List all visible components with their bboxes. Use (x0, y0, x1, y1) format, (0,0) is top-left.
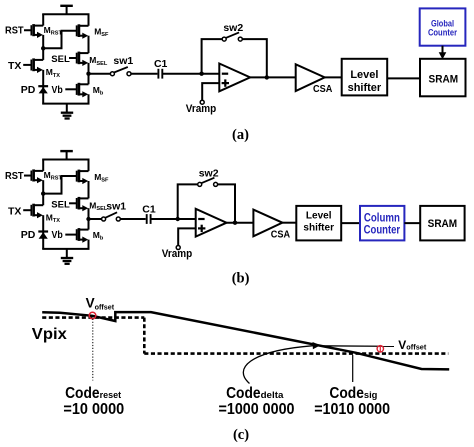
svg-text:Level: Level (350, 69, 378, 81)
fig b: level shifter block (296, 206, 341, 241)
fig b: wire pixel to sw1 (89, 218, 102, 220)
svg-text:TX: TX (8, 60, 21, 72)
fig a: wire right branch MSEL-Mb (88, 63, 90, 84)
fig a: wire left branch mid (42, 35, 44, 60)
svg-text:SEL: SEL (51, 199, 70, 210)
fig c: curved leader Code delta (243, 346, 313, 384)
transistor M_b (fig a) (65, 83, 88, 98)
fig a: plus input symbol (222, 79, 229, 86)
svg-text:Vramp: Vramp (162, 248, 193, 260)
svg-text:Mb: Mb (93, 85, 104, 97)
fig a: terminal Vramp circle (200, 100, 204, 104)
transistor M_SEL (fig b) (69, 197, 89, 211)
transistor M_SF (fig b) (77, 170, 89, 185)
fig b: wire feedback right (217, 184, 235, 223)
svg-text:TX: TX (8, 206, 21, 218)
fig b: op-amp comparator (196, 209, 227, 237)
fig b: wire right branch bottom (88, 240, 90, 249)
fig b: wire right branch MSEL-Mb (88, 208, 90, 229)
fig a: wire left branch lower (42, 70, 44, 104)
transistor M_b (fig b) (65, 228, 88, 243)
fig b: amplifier CSA (253, 210, 282, 237)
svg-text:SEL: SEL (51, 54, 70, 65)
svg-text:Voffset: Voffset (398, 338, 427, 352)
svg-text:(a): (a) (232, 127, 249, 143)
fig a: wire Vramp to plus input (202, 83, 219, 100)
fig c: dotted leader Code reset (92, 319, 94, 381)
fig b: wire left branch upper (42, 160, 44, 171)
fig c: ramp dashed waveform lower (144, 352, 448, 355)
svg-text:sw1: sw1 (106, 200, 126, 212)
svg-text:Level: Level (306, 211, 332, 222)
fig b: photodiode PD (38, 232, 48, 239)
svg-text:SRAM: SRAM (428, 218, 458, 230)
svg-text:CSA: CSA (313, 83, 333, 95)
fig a: switch sw1 (110, 67, 131, 76)
fig a: wire bottom rail (42, 103, 89, 105)
fig b: wire comparator output (227, 222, 254, 224)
svg-text:Column: Column (364, 213, 400, 225)
svg-text:(c): (c) (233, 427, 249, 443)
svg-text:RST: RST (5, 170, 24, 182)
fig a: wire sw1 to C1 (131, 73, 158, 75)
fig a: global counter block (420, 8, 466, 45)
svg-text:MSF: MSF (94, 172, 109, 184)
fig b: wire left branch lower (42, 215, 44, 249)
fig b: wire C1 to comparator (151, 218, 196, 220)
svg-text:sw1: sw1 (113, 55, 133, 67)
fig c: ramp dashed waveform upper (42, 316, 144, 319)
svg-text:MTX: MTX (46, 67, 61, 79)
fig a: wire right branch MSF-MSEL (88, 36, 90, 53)
svg-text:Vb: Vb (52, 84, 63, 96)
transistor M_TX (fig a) (23, 58, 43, 73)
fig a: amplifier CSA (296, 64, 325, 91)
fig b: minus input symbol (198, 218, 204, 220)
fig c: leader Code sig (352, 355, 354, 382)
svg-text:shifter: shifter (348, 82, 382, 94)
fig a: op-amp comparator (219, 64, 250, 92)
svg-text:=1000 0000: =1000 0000 (219, 401, 295, 418)
fig c: Vpix solid waveform (42, 312, 449, 369)
fig a: capacitor C1 (158, 69, 162, 79)
fig a: wire feedback right (242, 39, 267, 78)
transistor M_SEL (fig a) (69, 52, 89, 66)
fig b: wire feedback left (178, 184, 198, 219)
fig b: node comparator input dot (176, 217, 180, 221)
fig a: photodiode PD (38, 86, 48, 93)
svg-text:Vramp: Vramp (186, 103, 217, 115)
fig a: wire feedback left (202, 39, 223, 74)
svg-text:shifter: shifter (303, 222, 334, 233)
svg-text:C1: C1 (142, 204, 156, 216)
svg-text:Voffset: Voffset (86, 296, 115, 312)
svg-text:Mb: Mb (93, 230, 104, 242)
svg-text:C1: C1 (154, 58, 168, 70)
fig a: wire CSA to level shifter (325, 76, 342, 78)
fig a: level shifter block (342, 59, 388, 96)
fig a: node FD junction dot (41, 46, 45, 50)
svg-text:CSA: CSA (271, 229, 291, 241)
svg-text:PD: PD (21, 84, 36, 96)
fig b: wire CSA to level shifter (282, 222, 296, 224)
fig b: VDD supply symbol (60, 151, 73, 159)
fig b: wire right branch top (88, 160, 90, 172)
fig a: arrow global counter to SRAM (439, 46, 447, 60)
fig b: SRAM block (420, 206, 464, 241)
fig b: switch sw1 (102, 212, 121, 221)
fig b: wire MSF gate to node (43, 176, 76, 194)
fig c: ramp dashed waveform step (143, 318, 146, 354)
fig b: plus input symbol (198, 225, 205, 232)
fig b: column counter block (360, 206, 404, 241)
fig a: ground symbol (61, 104, 73, 119)
svg-text:(b): (b) (232, 271, 250, 287)
fig b: wire level shifter to column counter (341, 222, 360, 224)
svg-text:Counter: Counter (364, 225, 401, 237)
transistor M_RST (fig b) (24, 169, 43, 183)
fig b: node FD junction dot (41, 191, 45, 195)
fig b: capacitor C1 (147, 214, 151, 224)
fig a: wire pixel to sw1 (89, 73, 111, 75)
svg-text:MTX: MTX (46, 213, 61, 225)
fig c: arrowhead Code delta (313, 342, 321, 349)
transistor M_SF (fig a) (77, 24, 89, 39)
fig a: wire left branch upper (42, 14, 44, 25)
svg-text:MRST: MRST (44, 25, 63, 37)
svg-text:sw2: sw2 (199, 167, 219, 179)
fig b: wire Vramp to plus input (178, 228, 196, 245)
svg-text:PD: PD (21, 229, 36, 241)
svg-text:Vpix: Vpix (32, 326, 67, 343)
svg-text:Codedelta: Codedelta (226, 385, 284, 402)
fig a: minus input symbol (222, 73, 228, 75)
fig b: terminal Vramp circle (176, 246, 180, 250)
svg-text:Vb: Vb (52, 229, 63, 241)
fig b: wire bottom rail (42, 248, 89, 250)
fig b: wire column counter to SRAM (404, 222, 420, 224)
svg-text:sw2: sw2 (223, 22, 243, 34)
svg-text:Codesig: Codesig (329, 385, 377, 402)
svg-text:MRST: MRST (44, 170, 63, 182)
svg-text:Codereset: Codereset (65, 385, 121, 402)
fig b: node output dot (233, 221, 237, 225)
fig a: wire MSF gate to node (43, 31, 76, 49)
fig a: node pixel output dot (86, 72, 90, 76)
svg-text:SRAM: SRAM (429, 73, 459, 85)
svg-text:=10 0000: =10 0000 (63, 401, 124, 418)
svg-text:MSEL: MSEL (89, 55, 108, 67)
fig a: node output dot (265, 75, 269, 79)
fig a: SRAM block (420, 59, 466, 97)
svg-text:Counter: Counter (428, 27, 457, 38)
fig a: wire right branch bottom (88, 94, 90, 103)
fig b: node pixel output dot (86, 217, 90, 221)
transistor M_RST (fig a) (24, 24, 43, 38)
svg-text:RST: RST (5, 25, 24, 37)
fig b: wire right branch MSF-MSEL (88, 181, 90, 198)
transistor M_TX (fig b) (23, 204, 43, 219)
fig c: thin line Voffset right (318, 345, 394, 348)
fig c: marker circle Voffset left (89, 312, 96, 319)
fig c: marker circle Voffset right (377, 346, 383, 352)
fig a: wire right branch top (88, 14, 90, 26)
fig a: switch sw2 (222, 32, 242, 41)
fig b: wire top rail VDD (42, 159, 89, 161)
fig b: wire sw1 to C1 (120, 218, 146, 220)
fig b: switch sw2 (198, 178, 218, 187)
fig a: wire comparator output (250, 76, 296, 78)
svg-text:MSF: MSF (94, 27, 109, 39)
fig b: ground symbol (61, 249, 73, 264)
fig a: wire top rail VDD (42, 13, 89, 15)
svg-text:=1010 0000: =1010 0000 (314, 401, 390, 418)
fig b: wire left branch mid (42, 180, 44, 205)
fig a: wire level shifter to SRAM (387, 77, 420, 79)
svg-text:MSEL: MSEL (89, 201, 108, 213)
fig a: VDD supply symbol (60, 6, 73, 14)
fig a: wire C1 to comparator (162, 73, 219, 75)
fig a: node comparator input dot (199, 72, 203, 76)
